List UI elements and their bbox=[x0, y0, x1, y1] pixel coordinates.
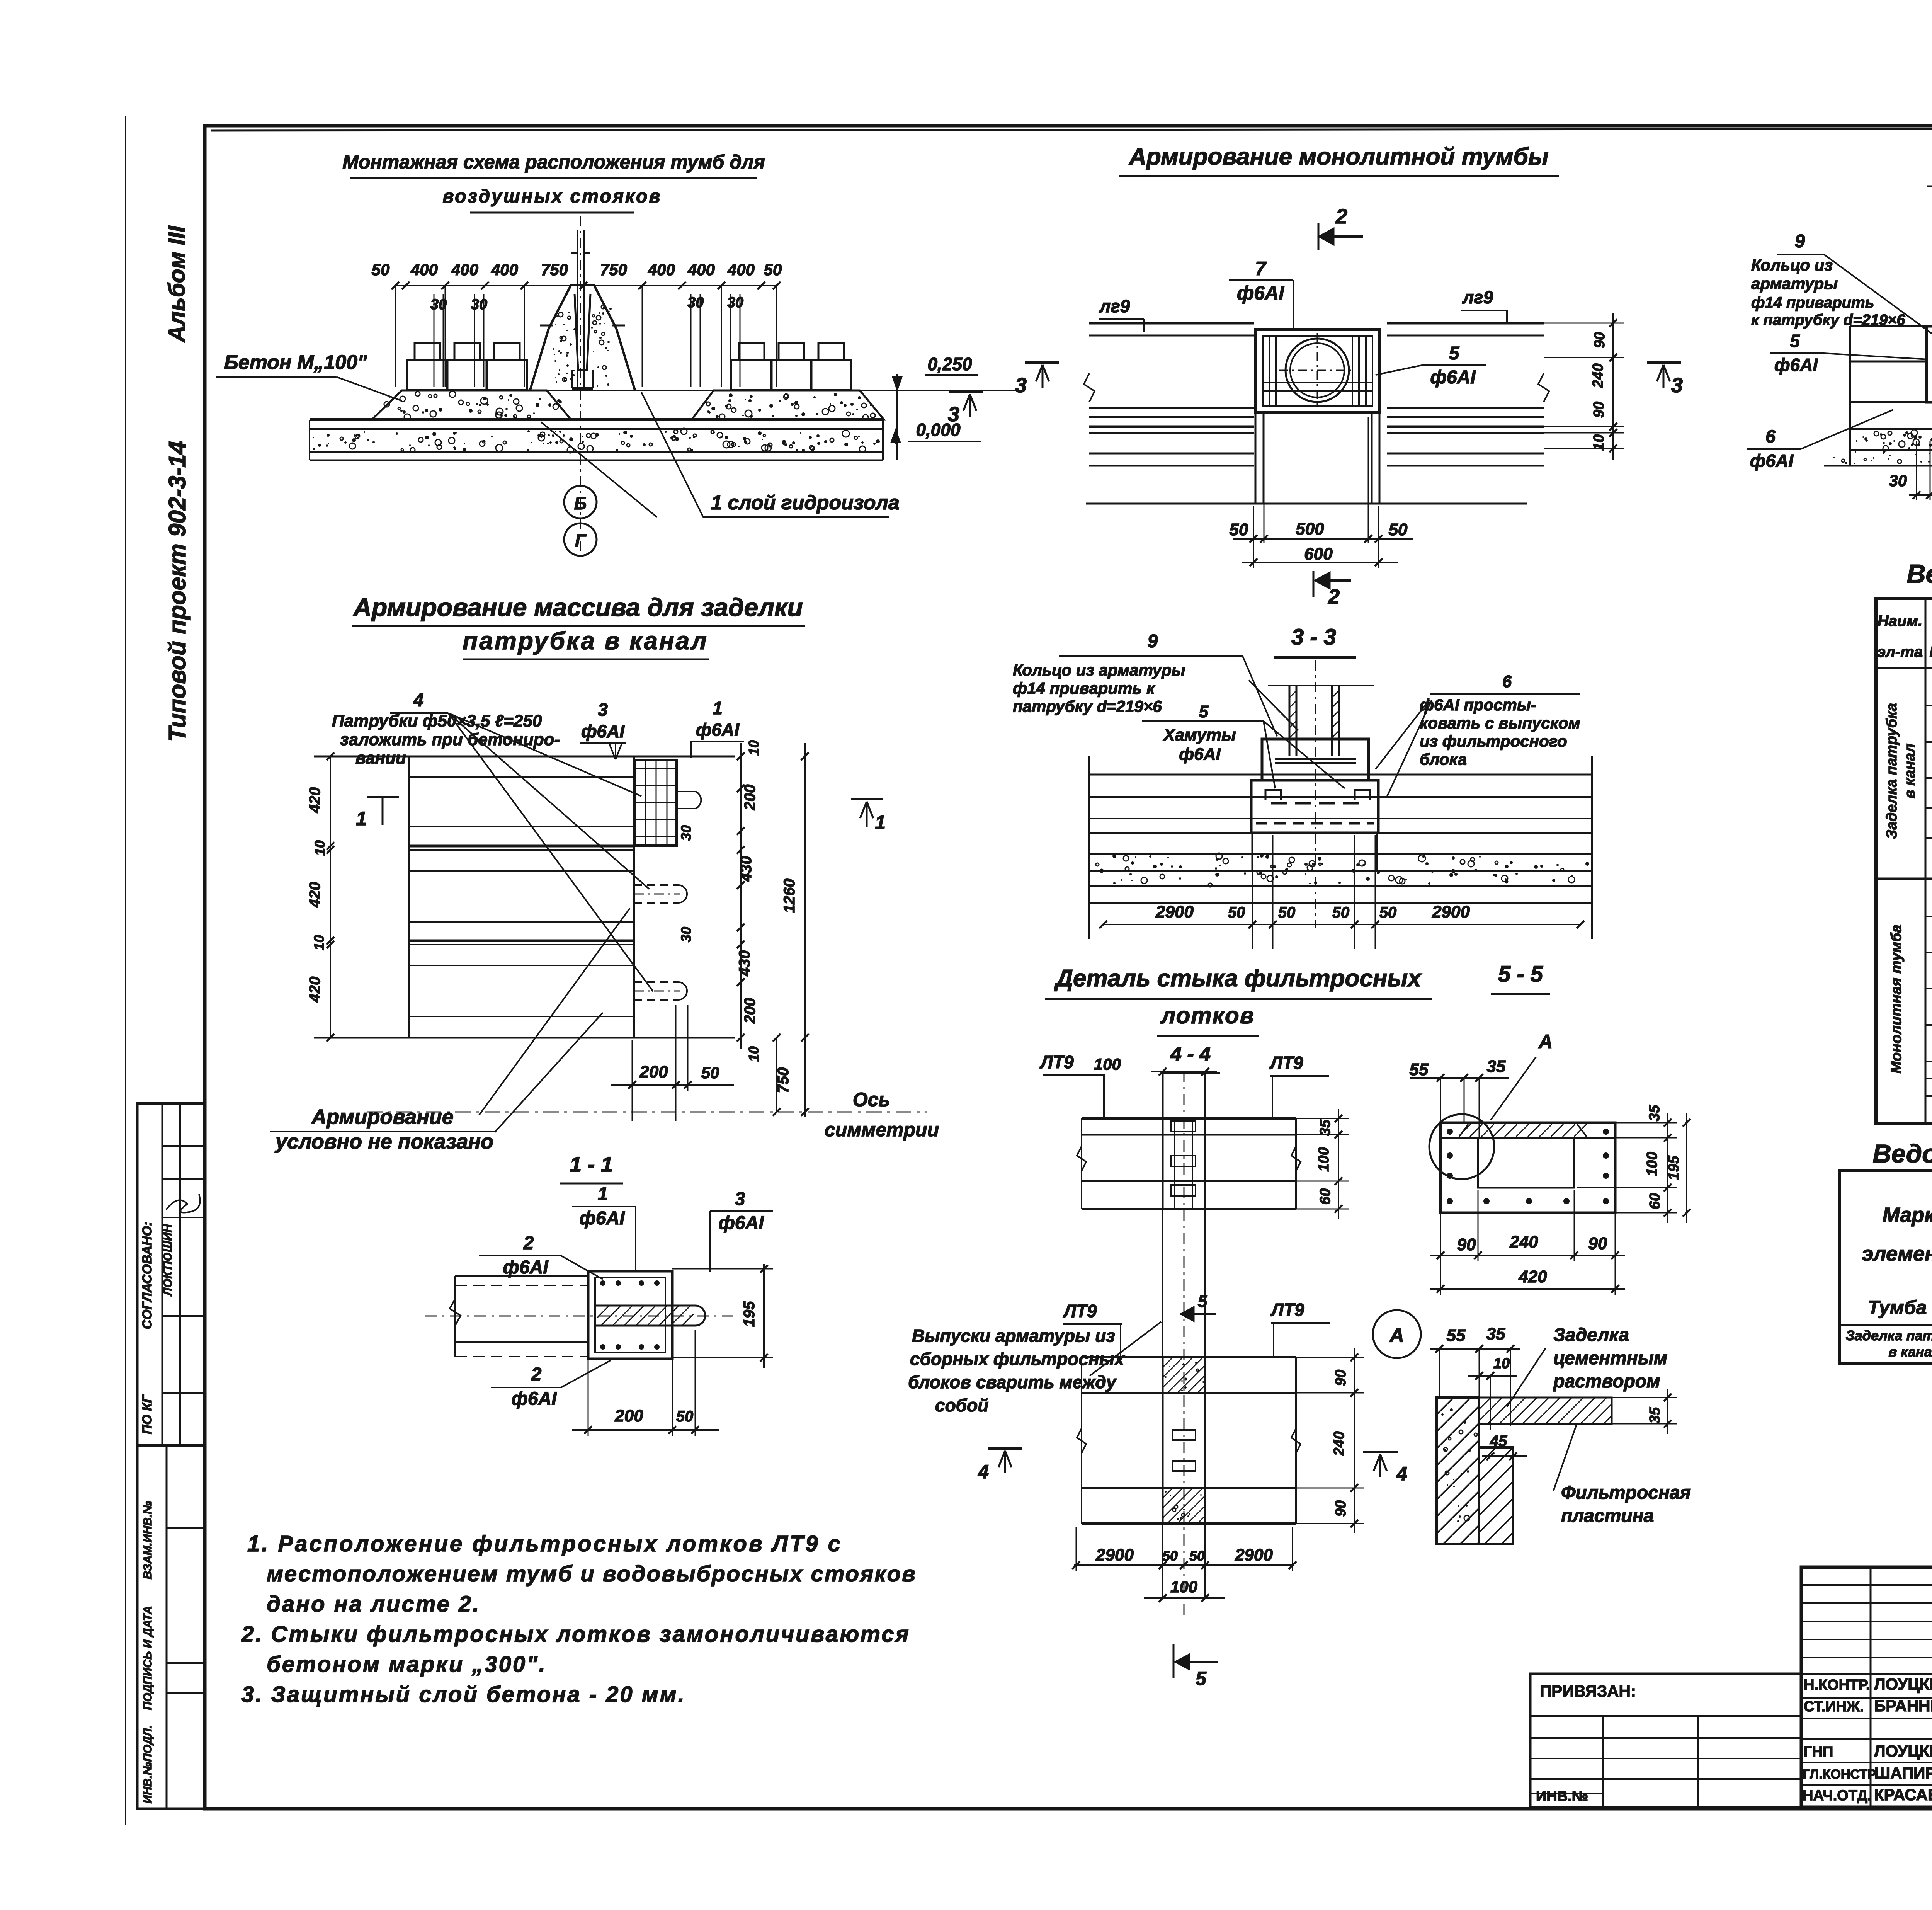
svg-text:3: 3 bbox=[735, 1189, 745, 1209]
svg-text:БРАННИНА: БРАННИНА bbox=[1874, 1697, 1932, 1715]
svg-text:10: 10 bbox=[746, 740, 762, 756]
svg-text:ф6АI: ф6АI bbox=[511, 1389, 557, 1409]
svg-text:ф6АI: ф6АI bbox=[1237, 282, 1284, 304]
left slab lines bbox=[1850, 325, 1927, 327]
svg-text:50: 50 bbox=[1162, 1548, 1178, 1564]
svg-text:100: 100 bbox=[1644, 1152, 1660, 1176]
table 2 grid bbox=[1840, 1171, 1932, 1364]
concrete wall hatched bbox=[1437, 1398, 1479, 1544]
concrete ledge bbox=[1479, 1447, 1513, 1544]
rebar dots bbox=[1447, 1129, 1453, 1135]
svg-text:ЛОУЦКЕР: ЛОУЦКЕР bbox=[1874, 1675, 1932, 1693]
right dim 195 bbox=[1686, 1113, 1687, 1223]
svg-text:Ось: Ось bbox=[853, 1089, 890, 1110]
svg-text:Наим.: Наим. bbox=[1878, 613, 1922, 630]
right block pad bbox=[692, 390, 884, 420]
left dim chain bbox=[330, 756, 331, 1038]
svg-text:Заделка патрубка: Заделка патрубка bbox=[1884, 703, 1900, 839]
svg-text:30: 30 bbox=[678, 927, 694, 942]
svg-text:9: 9 bbox=[1795, 231, 1805, 252]
svg-text:10: 10 bbox=[311, 935, 327, 950]
svg-text:Тумба: Тумба bbox=[1868, 1297, 1927, 1318]
5-5 section outer bbox=[1440, 1123, 1615, 1213]
3-3 tumba wide box bbox=[1251, 780, 1378, 833]
svg-text:заложить при бетониро-: заложить при бетониро- bbox=[340, 730, 560, 749]
svg-text:500: 500 bbox=[1296, 519, 1324, 538]
dim 750 bbox=[776, 1038, 777, 1112]
joint column lower hatched bbox=[1162, 1357, 1164, 1524]
svg-text:в канал: в канал bbox=[1902, 744, 1918, 799]
svg-text:Кольцо из арматуры: Кольцо из арматуры bbox=[1013, 661, 1185, 679]
svg-text:ф6АI: ф6АI bbox=[1179, 745, 1221, 764]
footing bbox=[1850, 402, 1932, 429]
svg-text:3: 3 bbox=[1015, 374, 1027, 397]
svg-text:400: 400 bbox=[687, 260, 715, 279]
walls below box bbox=[1255, 412, 1257, 504]
svg-text:Заделка: Заделка bbox=[1553, 1325, 1629, 1345]
svg-text:90: 90 bbox=[1333, 1370, 1349, 1386]
svg-text:1: 1 bbox=[356, 808, 367, 829]
svg-text:90: 90 bbox=[1588, 1234, 1607, 1253]
svg-text:ВЗАМ.ИНВ.№: ВЗАМ.ИНВ.№ bbox=[141, 1501, 154, 1580]
svg-text:раствором: раствором bbox=[1553, 1371, 1660, 1392]
svg-text:ф6АI: ф6АI bbox=[579, 1208, 625, 1229]
svg-text:ПО КГ: ПО КГ bbox=[140, 1394, 155, 1434]
svg-text:1: 1 bbox=[713, 698, 723, 718]
svg-text:Монтажная схема расположения т: Монтажная схема расположения тумб для bbox=[342, 151, 765, 173]
rebar verticals in box bbox=[1269, 336, 1270, 406]
svg-text:30: 30 bbox=[1889, 472, 1907, 490]
svg-text:симметрии: симметрии bbox=[825, 1119, 939, 1141]
section marks 4 bbox=[988, 1447, 1022, 1450]
svg-text:Монолитная тумба: Монолитная тумба bbox=[1888, 924, 1905, 1073]
svg-text:50: 50 bbox=[372, 260, 390, 279]
svg-text:ф14 приварить: ф14 приварить bbox=[1751, 294, 1874, 311]
svg-text:195: 195 bbox=[741, 1301, 758, 1327]
svg-text:ПРИВЯЗАН:: ПРИВЯЗАН: bbox=[1540, 1682, 1636, 1700]
svg-text:30: 30 bbox=[678, 825, 694, 841]
svg-text:НАЧ.ОТД.: НАЧ.ОТД. bbox=[1803, 1787, 1872, 1804]
right blocks group bbox=[731, 360, 772, 390]
svg-text:Заделка патрубков: Заделка патрубков bbox=[1846, 1328, 1932, 1343]
svg-text:цементным: цементным bbox=[1553, 1348, 1667, 1369]
svg-text:лотков: лотков bbox=[1160, 1003, 1255, 1028]
paper edge line bbox=[125, 116, 126, 1825]
slab speckle band bbox=[674, 430, 678, 434]
svg-text:ЛТ9: ЛТ9 bbox=[1039, 1052, 1074, 1072]
svg-text:2900: 2900 bbox=[1095, 1546, 1134, 1564]
svg-text:400: 400 bbox=[491, 260, 518, 279]
dim line top of montage scheme bbox=[395, 285, 777, 286]
svg-text:200: 200 bbox=[614, 1406, 643, 1425]
right dims 90 240 90 bbox=[1354, 1348, 1355, 1533]
svg-text:Ведомость стержней на 1 элемен: Ведомость стержней на 1 элемент bbox=[1907, 559, 1932, 589]
right dims 35 100 60 bbox=[1667, 1113, 1668, 1223]
mound inner channel bbox=[575, 294, 590, 370]
bottom dim 420 bbox=[1430, 1288, 1625, 1290]
svg-text:А: А bbox=[1538, 1031, 1553, 1052]
svg-text:ЛОКТЮШИН: ЛОКТЮШИН bbox=[162, 1224, 174, 1296]
svg-text:ф6АI: ф6АI bbox=[503, 1257, 549, 1278]
lower 4-4 band bbox=[1082, 1356, 1296, 1358]
svg-text:Армирование массива для заделк: Армирование массива для заделки bbox=[352, 593, 803, 621]
svg-text:420: 420 bbox=[306, 787, 323, 814]
svg-text:0,250: 0,250 bbox=[927, 354, 972, 374]
svg-text:2: 2 bbox=[1335, 205, 1347, 228]
svg-text:100: 100 bbox=[1094, 1055, 1121, 1073]
ring line in tumba bbox=[1275, 758, 1356, 760]
svg-text:А: А bbox=[1389, 1324, 1404, 1347]
svg-text:Патрубки ф50×3,5 ℓ=250: Патрубки ф50×3,5 ℓ=250 bbox=[332, 712, 542, 730]
bottom dims 50 500 50 bbox=[1233, 538, 1413, 540]
svg-text:10: 10 bbox=[1493, 1355, 1510, 1372]
1-1 main box bbox=[588, 1271, 672, 1359]
svg-text:Поз.: Поз. bbox=[1929, 642, 1932, 661]
bottom dims 200 50 bbox=[572, 1429, 719, 1431]
svg-text:100: 100 bbox=[1170, 1578, 1197, 1596]
svg-text:50: 50 bbox=[1230, 520, 1248, 539]
svg-text:СТ.ИНЖ.: СТ.ИНЖ. bbox=[1804, 1699, 1864, 1715]
hamuty hooks bbox=[1265, 790, 1281, 800]
svg-text:400: 400 bbox=[727, 260, 755, 279]
svg-text:55: 55 bbox=[1410, 1060, 1429, 1079]
svg-text:Кольцо из: Кольцо из bbox=[1751, 256, 1833, 274]
bottom pipe dashed bbox=[634, 981, 678, 983]
195 dim bbox=[763, 1264, 765, 1368]
svg-text:Марка: Марка bbox=[1883, 1204, 1932, 1227]
svg-text:30: 30 bbox=[727, 295, 743, 311]
svg-text:Б: Б bbox=[574, 493, 587, 513]
svg-text:6: 6 bbox=[1502, 672, 1512, 691]
svg-text:ГНП: ГНП bbox=[1804, 1744, 1833, 1760]
svg-text:5: 5 bbox=[1196, 1668, 1207, 1689]
svg-text:240: 240 bbox=[1590, 363, 1606, 388]
svg-text:ф6АI: ф6АI bbox=[696, 720, 740, 740]
svg-text:ковать с выпуском: ковать с выпуском bbox=[1420, 714, 1580, 732]
leaders to massif bbox=[495, 1013, 603, 1132]
svg-text:2. Стыки фильтросных лотков за: 2. Стыки фильтросных лотков замоноличива… bbox=[241, 1622, 910, 1647]
svg-text:ф6АI: ф6АI bbox=[581, 721, 625, 741]
svg-text:Выпуски арматуры из: Выпуски арматуры из bbox=[912, 1326, 1115, 1346]
privyazan box bbox=[1530, 1674, 1801, 1807]
circled axis Б bbox=[564, 486, 597, 518]
vypuski dashes rows bbox=[1271, 802, 1360, 805]
35 dim right bbox=[1667, 1389, 1668, 1434]
svg-text:430: 430 bbox=[736, 950, 753, 977]
svg-text:3: 3 bbox=[948, 403, 959, 426]
left columns bbox=[1870, 1567, 1872, 1807]
svg-text:местоположением тумб и водовыб: местоположением тумб и водовыбросных сто… bbox=[267, 1561, 917, 1587]
svg-text:2900: 2900 bbox=[1155, 902, 1194, 921]
svg-text:Н.КОНТР.: Н.КОНТР. bbox=[1804, 1677, 1870, 1693]
blocks row lines bbox=[1089, 774, 1592, 776]
svg-text:50: 50 bbox=[764, 260, 782, 279]
lotok bands right bbox=[1387, 322, 1544, 325]
svg-text:воздушных стояков: воздушных стояков bbox=[442, 186, 662, 207]
svg-text:35: 35 bbox=[1647, 1407, 1663, 1423]
section mark 5 bottom bbox=[1173, 1644, 1175, 1678]
svg-text:патрубку d=219×6: патрубку d=219×6 bbox=[1013, 697, 1162, 715]
svg-text:10: 10 bbox=[312, 840, 328, 856]
svg-text:50: 50 bbox=[676, 1408, 694, 1425]
svg-text:1 слой гидроизола: 1 слой гидроизола bbox=[711, 492, 900, 514]
svg-text:35: 35 bbox=[1487, 1057, 1506, 1076]
svg-text:30: 30 bbox=[430, 296, 447, 313]
svg-text:420: 420 bbox=[1518, 1267, 1547, 1286]
embedded pipe block top (hatched) bbox=[635, 760, 677, 846]
svg-text:ЛТ9: ЛТ9 bbox=[1270, 1300, 1304, 1320]
drawing frame bbox=[205, 126, 1932, 1809]
svg-text:ЛОУЦКЕР: ЛОУЦКЕР bbox=[1874, 1742, 1932, 1760]
left block pad bbox=[372, 390, 571, 420]
svg-text:5: 5 bbox=[1790, 331, 1800, 351]
4-4 plan band bbox=[1082, 1117, 1296, 1120]
svg-text:Ведомость расхода стали на эле: Ведомость расхода стали на элемент, кг bbox=[1872, 1139, 1932, 1168]
svg-text:ИНВ.№: ИНВ.№ bbox=[1536, 1788, 1588, 1804]
svg-text:5 - 5: 5 - 5 bbox=[1498, 962, 1543, 987]
svg-text:60: 60 bbox=[1647, 1193, 1663, 1209]
svg-text:5: 5 bbox=[1199, 702, 1209, 721]
left stamp box lower bbox=[137, 1445, 205, 1809]
svg-text:ШАПИРО: ШАПИРО bbox=[1874, 1764, 1932, 1782]
massif plan: top and bottom boundary bbox=[314, 756, 735, 758]
svg-text:ЛТ9: ЛТ9 bbox=[1063, 1301, 1097, 1321]
svg-text:сборных фильтросных: сборных фильтросных bbox=[910, 1349, 1125, 1369]
svg-text:1260: 1260 bbox=[781, 879, 798, 913]
svg-text:100: 100 bbox=[1316, 1147, 1332, 1171]
svg-text:400: 400 bbox=[648, 260, 675, 279]
crosshatched top band bbox=[1459, 1124, 1471, 1136]
svg-text:2: 2 bbox=[1328, 585, 1340, 608]
pipe right bbox=[595, 1305, 695, 1307]
svg-text:ИНВ.№ПОДЛ.: ИНВ.№ПОДЛ. bbox=[141, 1725, 154, 1804]
svg-text:КРАСАВИН: КРАСАВИН bbox=[1874, 1786, 1932, 1804]
svg-text:патрубка в канал: патрубка в канал bbox=[463, 627, 708, 655]
0.250 surface line bbox=[402, 390, 1021, 391]
svg-text:750: 750 bbox=[775, 1067, 792, 1093]
top pipe bulb bbox=[677, 791, 696, 792]
svg-text:ф6АI: ф6АI bbox=[1774, 355, 1818, 375]
break marks bbox=[1084, 373, 1095, 402]
bottom dims 2900 50 50 2900 bbox=[1074, 1564, 1294, 1566]
filter plate crosshatched bbox=[1479, 1398, 1612, 1424]
svg-text:4: 4 bbox=[978, 1461, 989, 1483]
svg-text:2900: 2900 bbox=[1235, 1546, 1273, 1564]
svg-text:3: 3 bbox=[1671, 374, 1683, 397]
svg-text:2: 2 bbox=[531, 1364, 542, 1385]
svg-text:Фильтросная: Фильтросная bbox=[1561, 1483, 1691, 1503]
svg-text:пластина: пластина bbox=[1561, 1506, 1654, 1526]
svg-text:3. Защитный слой бетона - 20 м: 3. Защитный слой бетона - 20 мм. bbox=[241, 1682, 686, 1707]
1-1 beam lines bbox=[455, 1275, 588, 1277]
section mark 3 right bbox=[1647, 361, 1681, 364]
svg-text:50: 50 bbox=[1379, 904, 1397, 921]
svg-text:240: 240 bbox=[1509, 1232, 1538, 1251]
svg-text:90: 90 bbox=[1333, 1500, 1349, 1517]
svg-text:200: 200 bbox=[742, 998, 759, 1024]
svg-text:430: 430 bbox=[738, 856, 755, 882]
middle pipe dashed bbox=[634, 885, 677, 903]
bottom dims 90 240 90 bbox=[1430, 1255, 1625, 1256]
dim 1260 bbox=[804, 743, 806, 1117]
lotok wall lines in plan bbox=[409, 776, 634, 778]
svg-text:ф6АI: ф6АI bbox=[1430, 367, 1476, 388]
svg-text:1: 1 bbox=[598, 1184, 608, 1204]
section marks 1 bbox=[367, 796, 399, 798]
right dims of tumba plan bbox=[1612, 313, 1614, 460]
svg-text:30: 30 bbox=[687, 295, 704, 311]
svg-text:элемента: элемента bbox=[1862, 1242, 1932, 1265]
svg-text:10: 10 bbox=[746, 1046, 762, 1062]
svg-text:ф6АI просты-: ф6АI просты- bbox=[1420, 696, 1536, 714]
svg-text:ф6АI: ф6АI bbox=[718, 1213, 764, 1233]
svg-text:4 - 4: 4 - 4 bbox=[1170, 1043, 1211, 1066]
svg-text:35: 35 bbox=[1486, 1324, 1505, 1343]
breaks lower band bbox=[1077, 1428, 1086, 1453]
ground slab bbox=[310, 418, 883, 421]
svg-text:Бетон М„100": Бетон М„100" bbox=[224, 351, 367, 374]
bottom dims 200 50 bbox=[611, 1084, 734, 1086]
svg-text:блоков сварить между: блоков сварить между bbox=[908, 1372, 1117, 1392]
svg-text:собой: собой bbox=[935, 1395, 988, 1415]
right dim chain bbox=[740, 743, 742, 1049]
svg-text:блока: блока bbox=[1420, 750, 1467, 768]
3-3 bottom dims bbox=[1252, 835, 1253, 949]
svg-text:600: 600 bbox=[1304, 545, 1333, 563]
svg-text:СОГЛАСОВАНО:: СОГЛАСОВАНО: bbox=[140, 1222, 155, 1330]
svg-text:1. Расположение фильтросных ло: 1. Расположение фильтросных лотков ЛТ9 с bbox=[247, 1531, 842, 1556]
svg-text:3 - 3: 3 - 3 bbox=[1291, 625, 1336, 650]
bottom dims 30 410 bbox=[1909, 494, 1932, 496]
svg-text:5: 5 bbox=[1198, 1292, 1207, 1311]
svg-text:ГЛ.КОНСТР: ГЛ.КОНСТР bbox=[1803, 1767, 1876, 1782]
signature squiggle bbox=[166, 1194, 200, 1213]
svg-text:400: 400 bbox=[451, 260, 478, 279]
svg-text:вании: вании bbox=[355, 749, 406, 768]
svg-text:лг9: лг9 bbox=[1099, 296, 1130, 316]
extension lines bbox=[395, 286, 396, 387]
svg-text:50: 50 bbox=[1189, 1548, 1205, 1564]
connecting column verticals bbox=[1162, 1209, 1163, 1357]
svg-text:Альбом III: Альбом III bbox=[164, 225, 190, 343]
2-2 pedestal bbox=[1927, 326, 1932, 402]
title block main bbox=[1801, 1567, 1932, 1807]
svg-text:420: 420 bbox=[306, 977, 323, 1003]
right dims 35 100 60 upper bbox=[1338, 1109, 1339, 1219]
svg-text:750: 750 bbox=[600, 260, 627, 279]
left stamp box upper bbox=[137, 1103, 205, 1445]
3-3 tumba upper box bbox=[1262, 739, 1369, 780]
Ось симметрии bbox=[367, 1112, 927, 1113]
svg-text:3: 3 bbox=[598, 700, 608, 720]
svg-text:90: 90 bbox=[1592, 332, 1608, 348]
left blocks group bbox=[407, 360, 447, 390]
svg-text:50: 50 bbox=[1332, 904, 1350, 921]
central mound bbox=[530, 285, 635, 390]
svg-text:60: 60 bbox=[1317, 1188, 1333, 1205]
svg-text:50: 50 bbox=[1278, 904, 1296, 921]
svg-text:9: 9 bbox=[1148, 631, 1158, 652]
svg-text:6: 6 bbox=[1765, 426, 1776, 446]
section mark 2 bottom bbox=[1313, 571, 1315, 597]
joint column upper bbox=[1162, 1072, 1164, 1209]
section mark 3 (right of scheme) bbox=[949, 391, 983, 393]
svg-text:5: 5 bbox=[1449, 343, 1460, 364]
svg-text:10: 10 bbox=[1591, 434, 1607, 451]
svg-text:Деталь стыка фильтросных: Деталь стыка фильтросных bbox=[1054, 965, 1422, 992]
svg-text:45: 45 bbox=[1490, 1433, 1507, 1450]
svg-text:35: 35 bbox=[1646, 1105, 1663, 1121]
massif body edges bbox=[408, 756, 410, 1038]
svg-text:в канал: в канал bbox=[1888, 1344, 1932, 1360]
svg-text:лг9: лг9 bbox=[1462, 287, 1493, 307]
svg-text:бетоном марки „300".: бетоном марки „300". bbox=[267, 1652, 547, 1677]
svg-text:ЛТ9: ЛТ9 bbox=[1269, 1053, 1303, 1073]
riser pipe bbox=[577, 230, 578, 388]
svg-text:200: 200 bbox=[639, 1062, 668, 1081]
svg-text:Армирование монолитной тумбы: Армирование монолитной тумбы bbox=[1128, 143, 1549, 170]
svg-text:условно не показано: условно не показано bbox=[274, 1130, 493, 1153]
svg-text:50: 50 bbox=[1389, 520, 1408, 539]
svg-text:30: 30 bbox=[471, 296, 487, 313]
section mark 2 top bbox=[1318, 235, 1363, 238]
svg-text:90: 90 bbox=[1591, 402, 1607, 418]
svg-text:50: 50 bbox=[1228, 904, 1245, 921]
svg-text:2900: 2900 bbox=[1432, 902, 1470, 921]
svg-text:4: 4 bbox=[1396, 1463, 1407, 1484]
svg-text:7: 7 bbox=[1255, 258, 1267, 279]
svg-text:420: 420 bbox=[306, 882, 323, 908]
circled axis Г bbox=[564, 523, 597, 556]
svg-text:из фильтросного: из фильтросного bbox=[1420, 732, 1567, 750]
table 1 grid bbox=[1876, 599, 1932, 1123]
detail circle A bbox=[1429, 1114, 1494, 1179]
svg-text:1: 1 bbox=[875, 812, 886, 833]
svg-text:195: 195 bbox=[1666, 1155, 1682, 1180]
svg-text:240: 240 bbox=[1331, 1431, 1347, 1456]
detail circle А label bbox=[1373, 1310, 1421, 1358]
svg-text:35: 35 bbox=[1317, 1119, 1333, 1136]
right slab dim line bbox=[896, 390, 898, 460]
svg-text:Армирование: Армирование bbox=[311, 1105, 454, 1129]
svg-text:200: 200 bbox=[742, 785, 759, 811]
svg-text:1 - 1: 1 - 1 bbox=[570, 1152, 613, 1176]
svg-text:750: 750 bbox=[541, 260, 568, 279]
svg-text:50: 50 bbox=[701, 1064, 719, 1082]
leaders from 4 bbox=[448, 713, 641, 796]
svg-text:Типовой проект 902-3-14: Типовой проект 902-3-14 bbox=[164, 441, 191, 742]
breaks upper band bbox=[1077, 1146, 1086, 1171]
svg-text:Г: Г bbox=[575, 531, 587, 551]
svg-text:ПОДПИСЬ И ДАТА: ПОДПИСЬ И ДАТА bbox=[141, 1606, 154, 1710]
svg-text:400: 400 bbox=[410, 260, 438, 279]
lotok bands left bbox=[1089, 322, 1254, 325]
section mark 5 upper bbox=[1180, 1313, 1216, 1315]
3-3 pipes bbox=[1268, 685, 1374, 686]
circle opening bbox=[1286, 339, 1349, 402]
svg-text:Хамуты: Хамуты bbox=[1162, 725, 1236, 744]
svg-text:арматуры: арматуры bbox=[1751, 274, 1838, 293]
svg-text:55: 55 bbox=[1447, 1326, 1466, 1345]
svg-text:дано на листе 2.: дано на листе 2. bbox=[267, 1592, 480, 1617]
foundation below bbox=[1252, 833, 1253, 871]
inner opening bbox=[1478, 1138, 1574, 1188]
svg-text:90: 90 bbox=[1457, 1235, 1476, 1254]
svg-text:4: 4 bbox=[413, 690, 424, 711]
section mark 3 left bbox=[1025, 361, 1059, 364]
svg-text:ф6АI: ф6АI bbox=[1750, 451, 1794, 471]
svg-text:2: 2 bbox=[523, 1233, 534, 1253]
